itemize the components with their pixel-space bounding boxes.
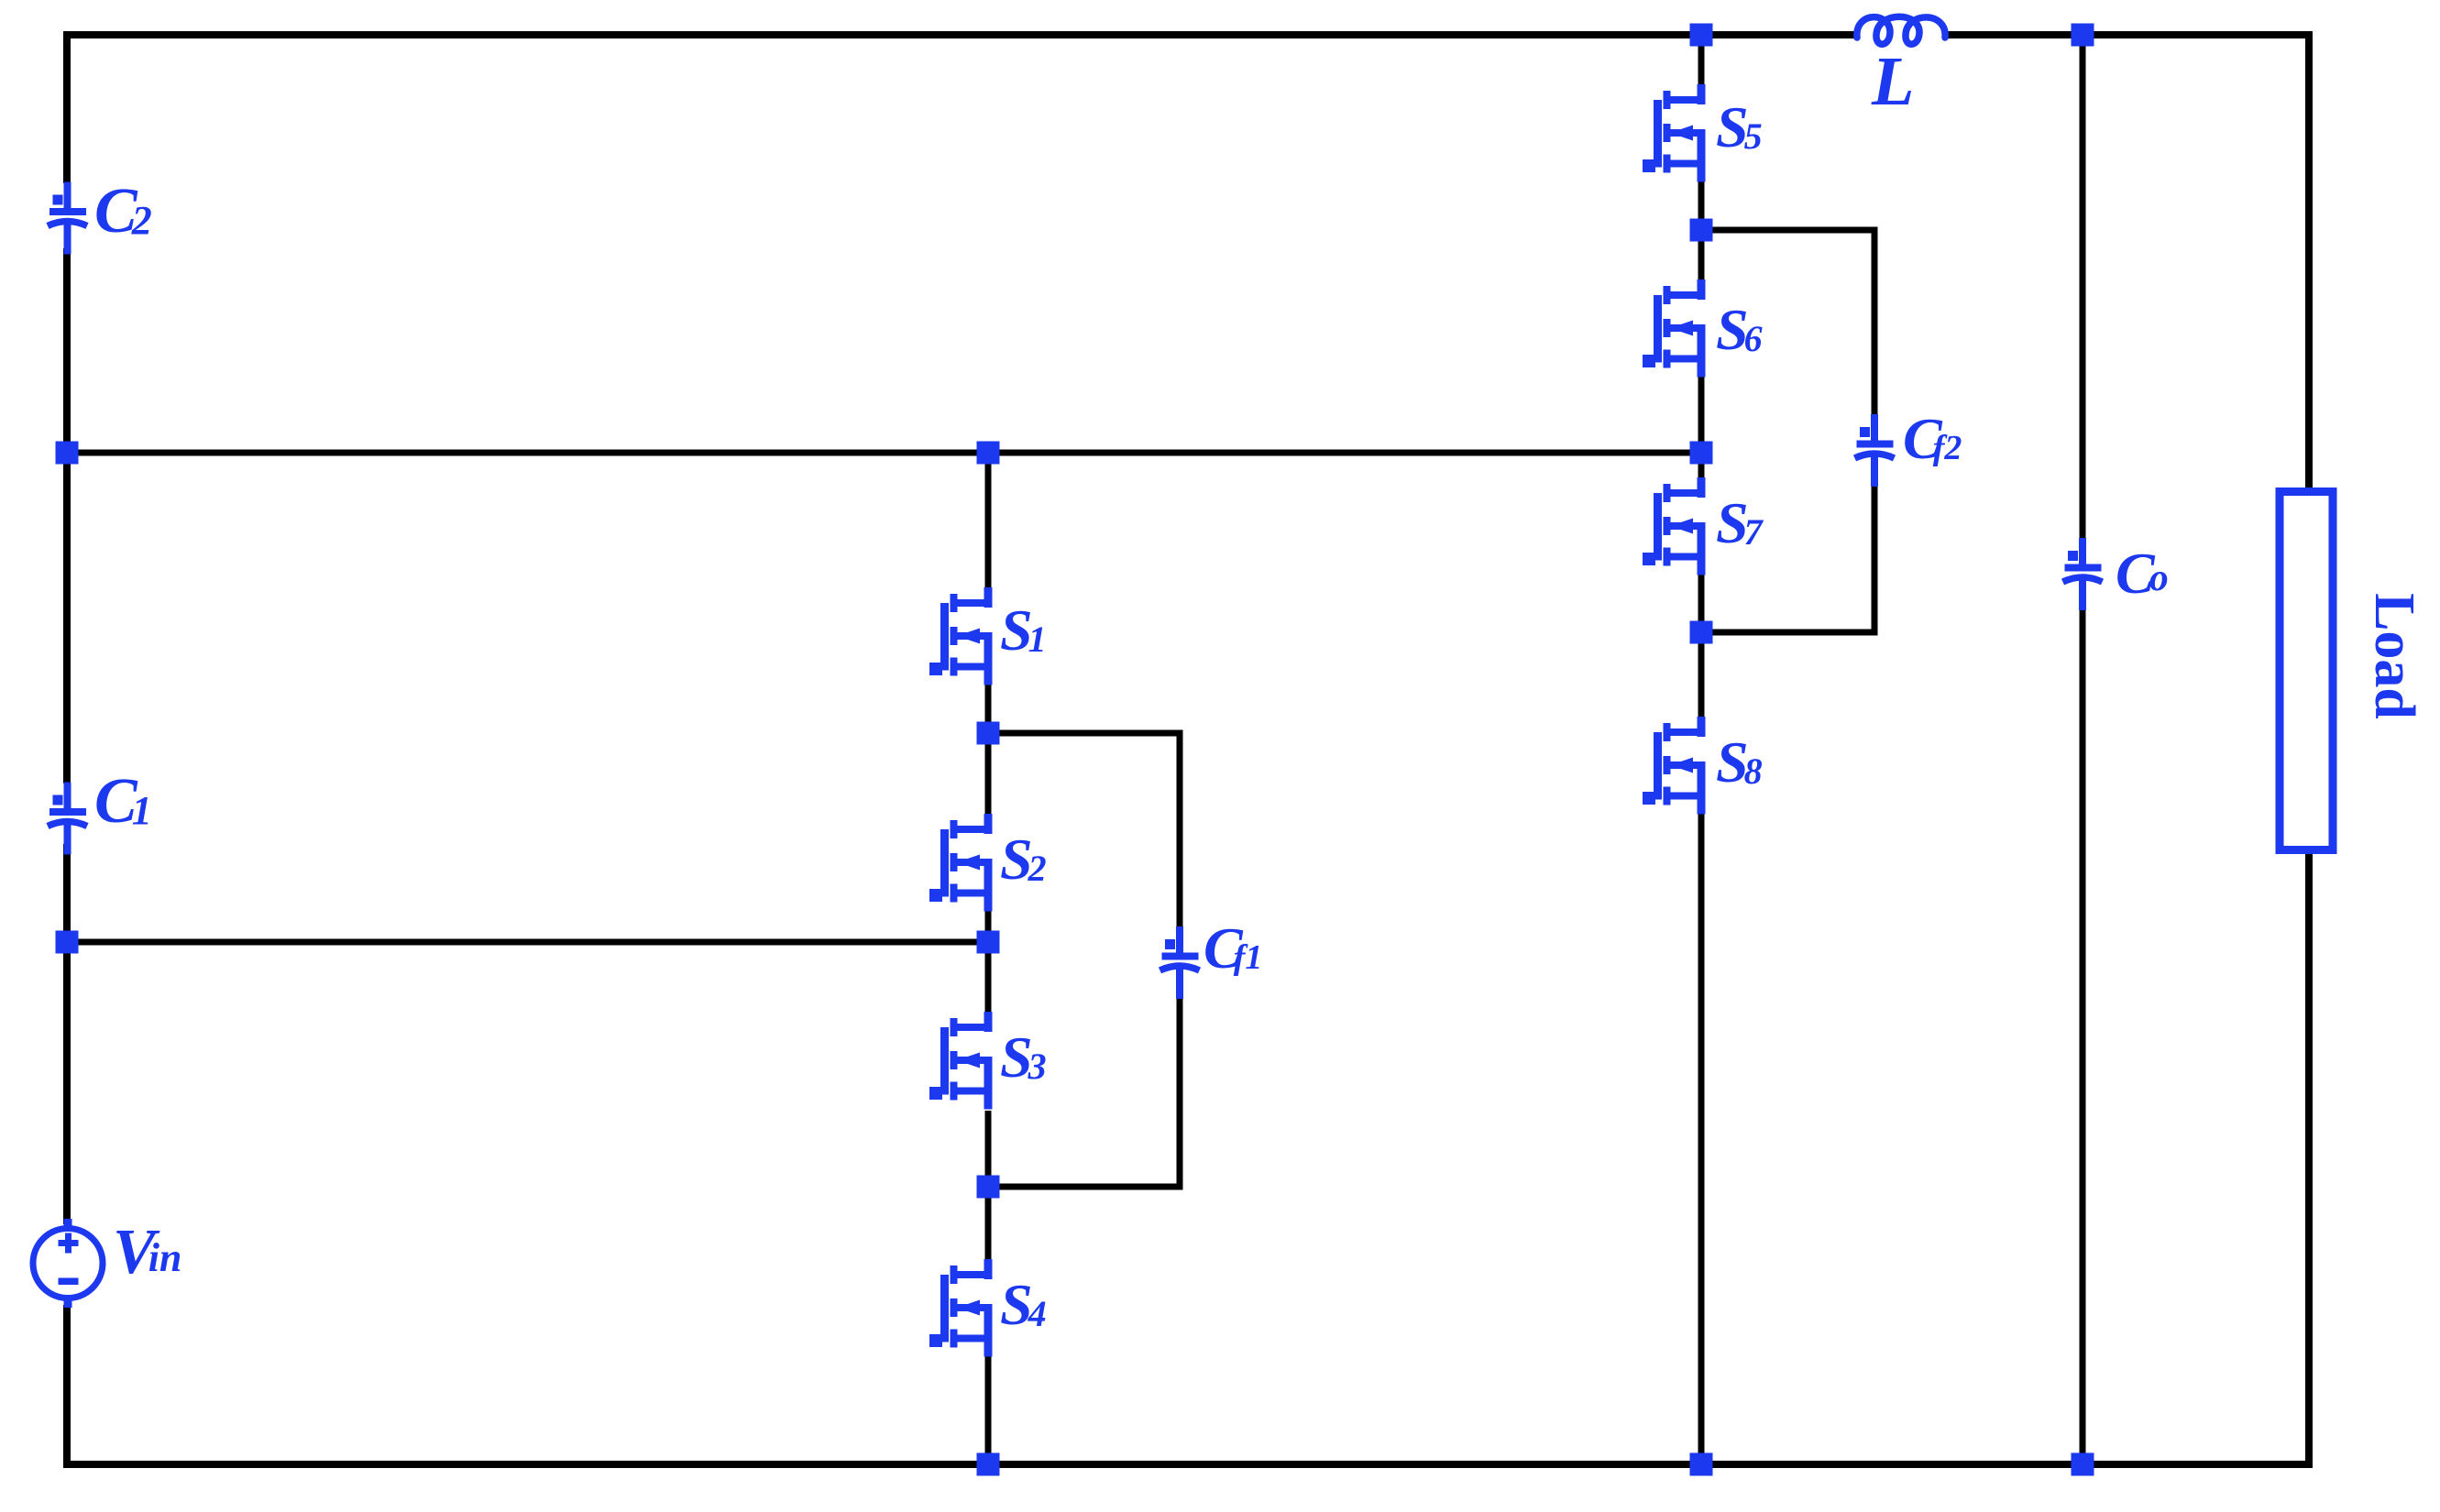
svg-text:Vin: Vin [113, 1217, 181, 1287]
svg-text:S4: S4 [1000, 1272, 1047, 1337]
svg-text:L: L [1871, 43, 1914, 120]
svg-text:C2: C2 [94, 176, 152, 247]
svg-text:C1: C1 [94, 766, 152, 837]
svg-text:Cf2: Cf2 [1903, 406, 1962, 471]
svg-text:S5: S5 [1716, 94, 1763, 159]
svg-text:S7: S7 [1716, 490, 1764, 555]
svg-text:Load: Load [2363, 593, 2425, 719]
svg-text:Co: Co [2116, 541, 2169, 606]
svg-text:S6: S6 [1716, 297, 1763, 362]
svg-text:S1: S1 [1000, 597, 1047, 663]
svg-text:Cf1: Cf1 [1204, 915, 1262, 981]
svg-text:S3: S3 [1000, 1024, 1047, 1090]
svg-text:S2: S2 [1000, 827, 1047, 892]
svg-text:S8: S8 [1716, 729, 1763, 794]
